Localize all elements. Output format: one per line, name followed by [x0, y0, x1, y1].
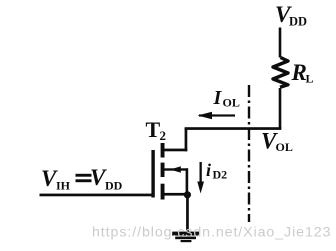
- wire source stub: [163, 193, 189, 196]
- label RL: [291, 60, 314, 86]
- current arrow IOL: [198, 112, 236, 119]
- transistor T2 channel drain segment: [161, 143, 165, 158]
- wire source to ground: [186, 195, 189, 233]
- boundary dash-dot line: [248, 85, 250, 222]
- svg-text:IH: IH: [56, 179, 71, 193]
- svg-text:OL: OL: [276, 140, 293, 154]
- ground: [172, 232, 199, 243]
- svg-text:DD: DD: [105, 179, 123, 193]
- svg-text:i: i: [206, 160, 211, 180]
- current arrow iD2: [197, 162, 204, 194]
- svg-text:D2: D2: [213, 168, 228, 182]
- svg-text:DD: DD: [289, 15, 307, 29]
- svg-text:2: 2: [160, 128, 167, 143]
- svg-text:I: I: [213, 87, 223, 109]
- wire VOL node horizontal: [185, 127, 282, 130]
- svg-text:R: R: [291, 60, 307, 85]
- wire gate lead: [40, 194, 154, 197]
- transistor T2 gate bar: [151, 150, 154, 198]
- svg-text:L: L: [306, 72, 314, 86]
- transistor T2 channel bulk segment: [161, 163, 165, 177]
- junction dot: [184, 191, 191, 198]
- wire resistor to VOL node: [279, 88, 282, 130]
- transistor T2 channel source segment: [161, 184, 165, 200]
- label iD2: [206, 160, 227, 182]
- wire drain vertical: [185, 128, 188, 151]
- power label VDD: [275, 2, 307, 29]
- svg-text:https://blog.csdn.net/Xiao_Jie: https://blog.csdn.net/Xiao_Jie123: [92, 225, 331, 241]
- label VOL: [261, 129, 293, 155]
- svg-text:OL: OL: [223, 96, 240, 110]
- label T2: [146, 117, 167, 143]
- label VIH = VDD: [41, 165, 123, 193]
- wire drain stub: [163, 149, 188, 152]
- resistor RL: [273, 58, 288, 88]
- label IOL: [213, 87, 240, 110]
- svg-text:T: T: [146, 117, 161, 142]
- wire VDD lead: [279, 28, 282, 58]
- transistor T2 bulk arrow: [164, 166, 188, 195]
